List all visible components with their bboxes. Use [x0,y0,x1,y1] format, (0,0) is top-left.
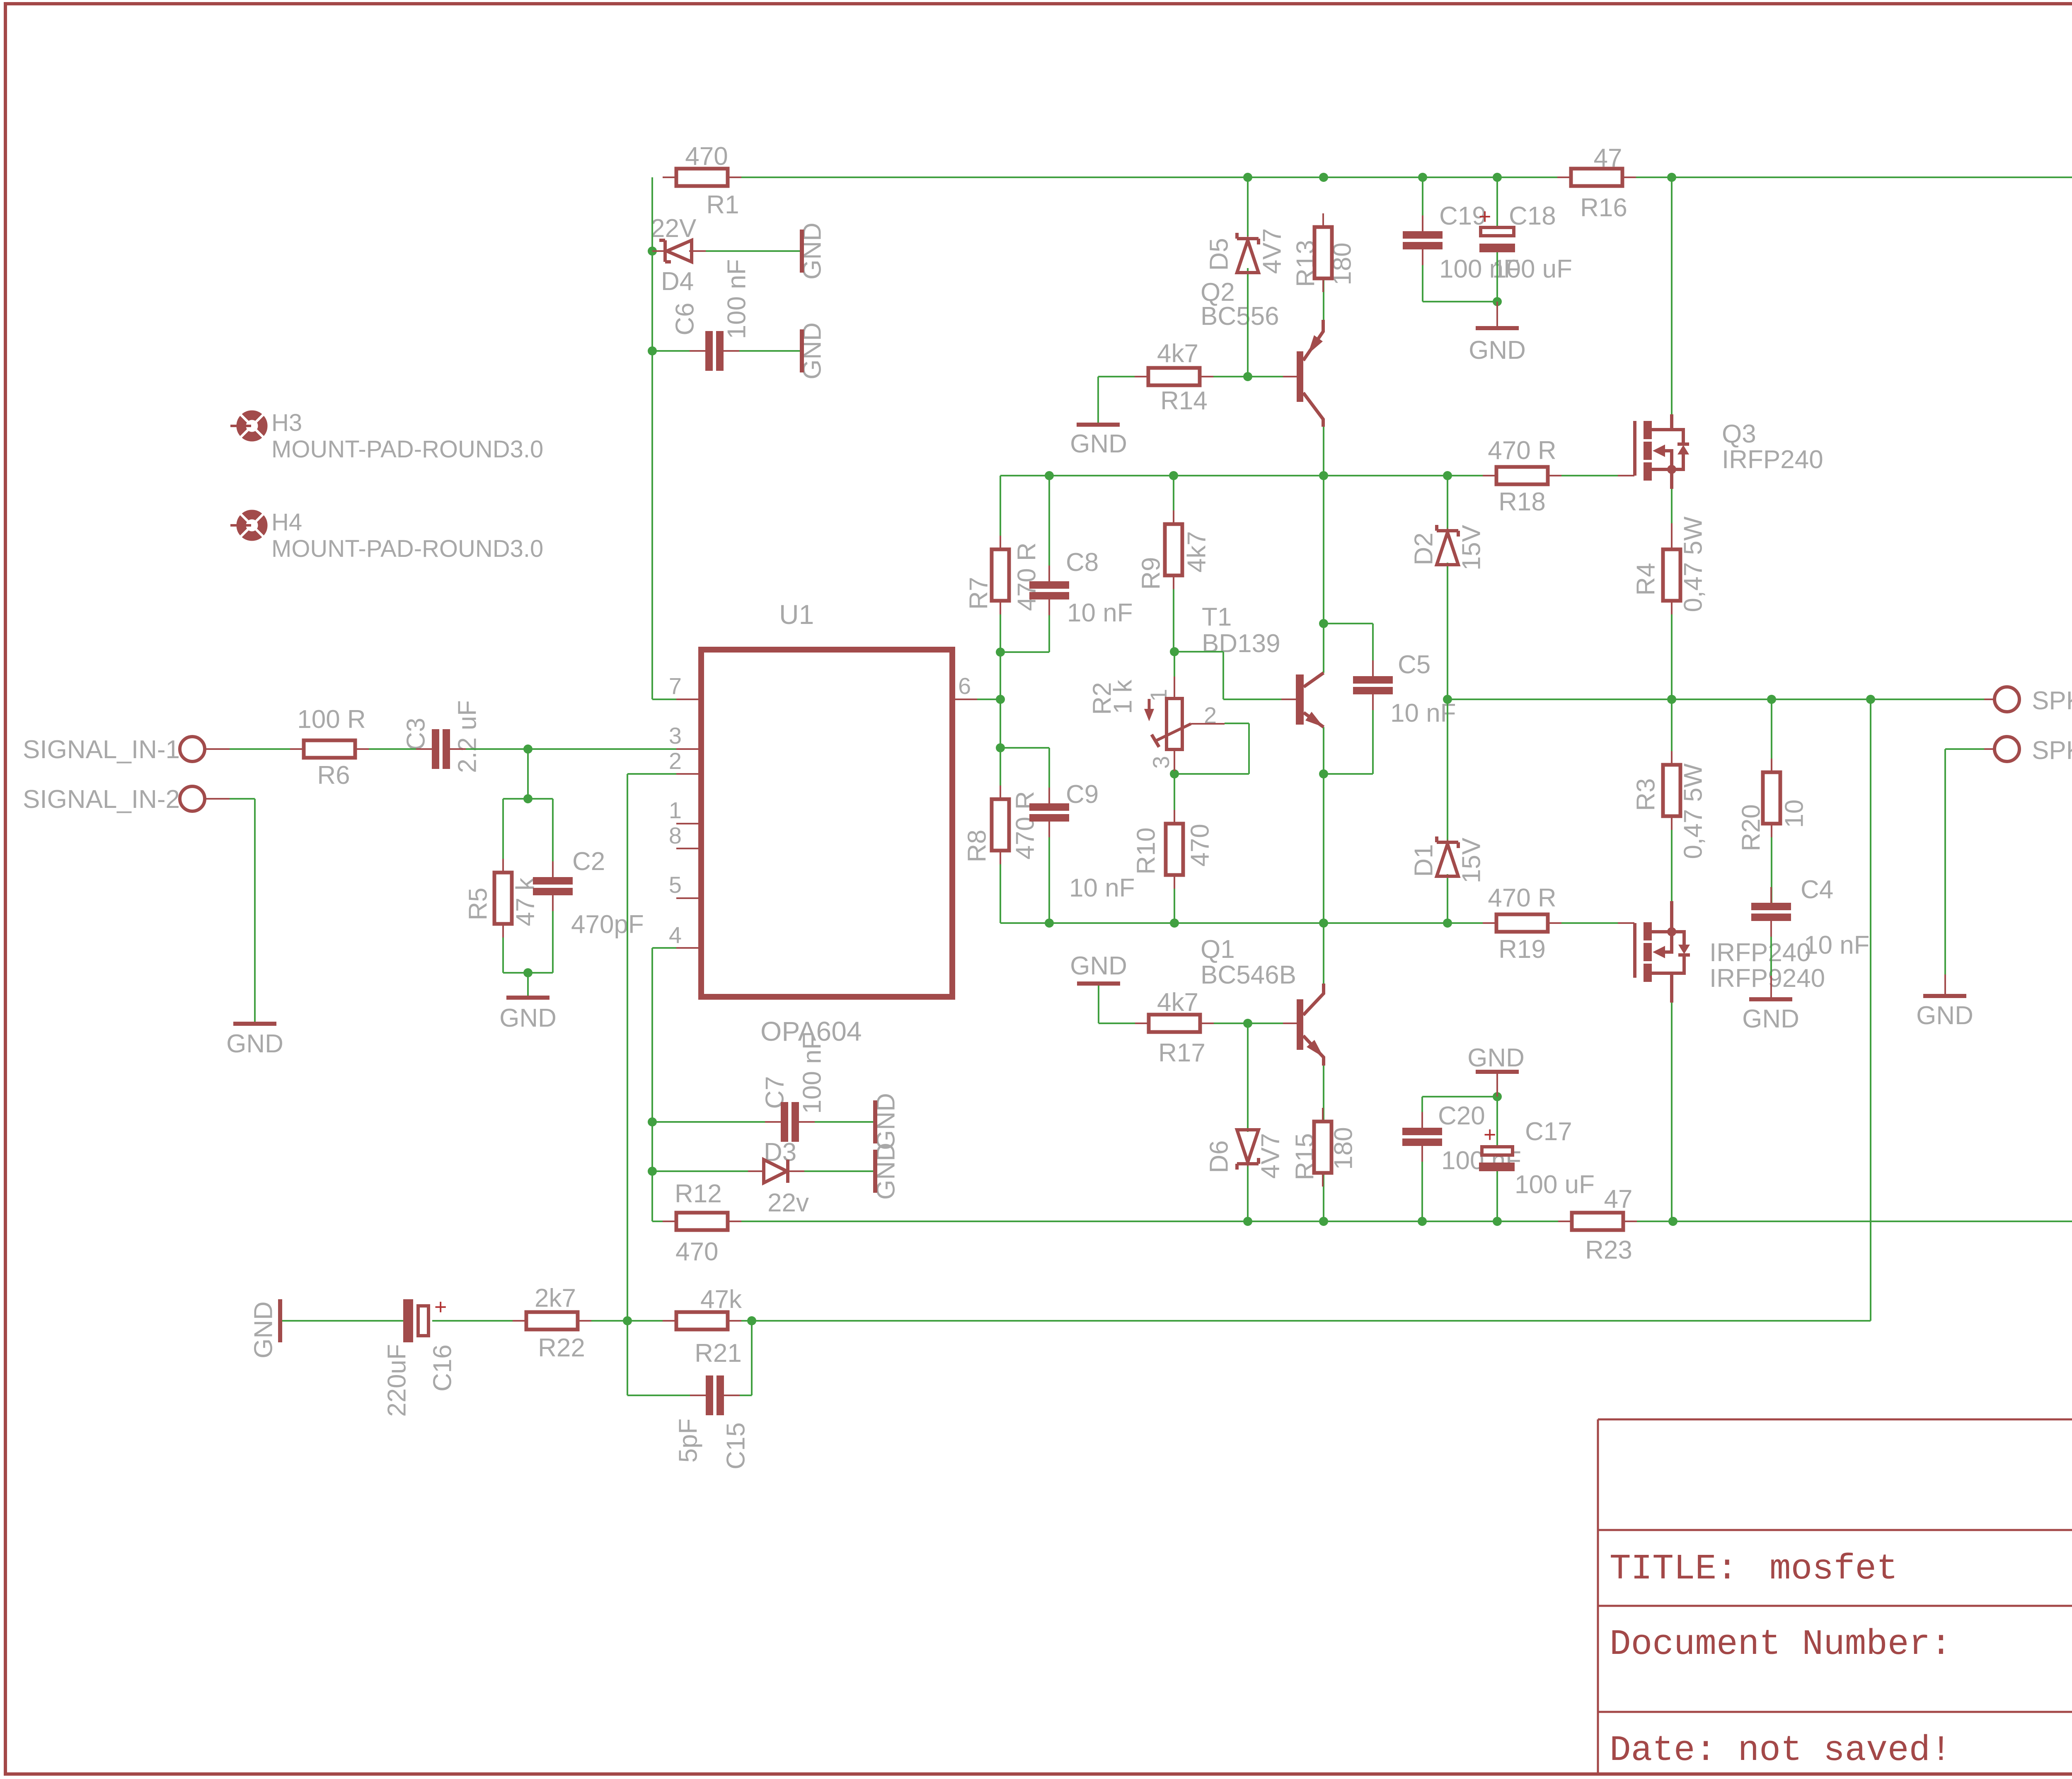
svg-text:Q1: Q1 [1201,935,1235,964]
svg-text:4V7: 4V7 [1258,228,1286,274]
wire R4 leads [1671,489,1673,523]
wire D3 net [652,1170,764,1172]
junction dots [1243,173,1252,182]
svg-text:H3: H3 [271,409,302,436]
svg-text:4k7: 4k7 [1182,531,1211,573]
pad SPK_OUT-1 [1995,737,2019,761]
transistor Q2 BC556 PNP [1297,351,1303,402]
svg-text:22V: 22V [651,214,697,243]
svg-text:C16: C16 [428,1344,457,1392]
svg-text:100 nF: 100 nF [798,1034,826,1114]
svg-text:R5: R5 [464,887,492,920]
wire -IN feedback vertical [627,773,676,775]
gnd below SPK_OUT-1 [1944,974,1946,996]
svg-text:+: + [1479,205,1491,229]
svg-text:47k: 47k [700,1285,742,1314]
polarized capacitor C17 100uF [1482,1147,1513,1155]
diode D3 22v [748,1170,765,1172]
svg-text:470 R: 470 R [1012,542,1041,611]
svg-text:4k7: 4k7 [1157,339,1198,368]
resistor R17 4k7 [1135,1022,1149,1024]
svg-text:R17: R17 [1158,1039,1205,1067]
wire lower bias rail [1000,922,1497,924]
svg-text:R10: R10 [1132,827,1160,875]
svg-text:Date: not saved!: Date: not saved! [1610,1730,1952,1771]
svg-text:C4: C4 [1801,875,1833,904]
gnd for R14 [1077,423,1120,427]
svg-text:GND: GND [226,1030,283,1058]
svg-text:D6: D6 [1205,1140,1233,1173]
svg-text:R16: R16 [1580,193,1627,222]
svg-text:C2: C2 [572,847,605,876]
gnd below C4 [1770,976,1772,999]
svg-text:C8: C8 [1066,548,1099,577]
svg-text:2: 2 [669,748,682,774]
svg-text:100 uF: 100 uF [1492,255,1572,283]
capacitor C8 10nF [1048,566,1050,581]
wire rail2 [1000,475,1497,476]
wire top supply rail [728,176,1571,178]
svg-text:6: 6 [958,673,971,699]
svg-text:R14: R14 [1160,387,1208,415]
resistor R22 2k7 [513,1320,526,1322]
svg-text:D5: D5 [1205,238,1233,271]
svg-text:470pF: 470pF [571,910,644,939]
capacitor C3 2.2uF [416,748,432,750]
svg-text:5: 5 [669,872,682,898]
svg-text:22v: 22v [767,1189,809,1217]
resistor R4 0.47 5W [1671,536,1673,549]
svg-text:10 nF: 10 nF [1067,599,1133,627]
svg-text:GND: GND [499,1004,557,1032]
wire R5/C2 branch [527,749,529,799]
resistor R20 10 [1771,759,1772,772]
wire C7 net [652,1121,780,1123]
wire R20 C4 chain [1771,699,1772,773]
capacitor C4 10nF [1770,887,1772,903]
resistor R8 470R [1000,786,1001,799]
svg-text:BC556: BC556 [1201,302,1279,331]
svg-text:TITLE:: TITLE: [1610,1549,1738,1589]
svg-text:470 R: 470 R [1011,791,1039,859]
svg-text:BD139: BD139 [1202,629,1280,658]
mosfet Q3 IRFP240 [1618,475,1634,476]
zener diode D2 15V [1437,525,1458,537]
opamp U1 OPA604 [701,650,952,997]
wire Q2 emitter/collector [1323,278,1324,320]
svg-text:C3: C3 [402,718,430,750]
svg-text:C6: C6 [670,302,699,335]
svg-text:GND: GND [1070,952,1127,980]
svg-text:Document Number:: Document Number: [1610,1624,1952,1665]
capacitor C6 100nF [690,350,705,352]
svg-text:R7: R7 [964,577,993,609]
svg-text:220uF: 220uF [382,1344,411,1417]
svg-text:H4: H4 [271,509,302,536]
wire D1 leads [1447,699,1448,842]
svg-text:mosfet: mosfet [1769,1549,1898,1589]
resistor R21 47k [663,1320,676,1322]
zener diode D6 4V7 [1237,1158,1259,1170]
resistor R9 4k7 [1173,510,1174,524]
zener diode D4 22V [652,250,669,252]
svg-text:R9: R9 [1137,557,1165,590]
svg-text:2k7: 2k7 [535,1284,576,1312]
svg-text:3: 3 [669,723,682,749]
transistor T1 BD139 NPN [1296,674,1304,725]
wire Q4 drain to rail [1671,1003,1673,1221]
gnd for C6 [800,329,804,372]
gnd below C19 C18 [1496,302,1498,328]
wire R7 R8 spine [1000,476,1001,549]
svg-text:GND: GND [1469,336,1526,365]
resistor R3 0.47 5W [1671,751,1673,765]
capacitor C5 10nF [1372,660,1374,676]
gnd left of C16 (rotated) [278,1299,282,1342]
wire SPK_OUT-2 feedback [1870,699,1871,1321]
wire D6 leads [1247,1023,1249,1132]
gnd below R5 C2 [506,996,549,1000]
resistor R6 100R [290,748,304,750]
wire C19 C18 [1422,177,1423,232]
svg-text:4k7: 4k7 [1157,988,1198,1017]
svg-text:D4: D4 [661,267,694,296]
capacitor C19 100nF [1422,215,1423,231]
wire D4 net [652,250,663,252]
svg-text:15V: 15V [1457,837,1486,883]
pad SIGNAL_IN-1 [180,737,205,761]
polarized capacitor C16 220uF [403,1299,413,1342]
svg-text:15V: 15V [1457,525,1486,570]
svg-text:R22: R22 [538,1334,585,1362]
svg-text:R12: R12 [675,1180,722,1208]
svg-text:3: 3 [1148,756,1174,769]
pad SIGNAL_IN-2 [180,786,205,811]
resistor R7 470R [1000,536,1001,549]
wire R10 leads [1174,774,1175,824]
svg-text:10 nF: 10 nF [1804,931,1870,960]
wire -VS vertical [652,947,676,949]
potentiometer R2 1k [1174,677,1175,699]
svg-text:10: 10 [1780,800,1808,828]
svg-text:D1: D1 [1409,844,1438,877]
wire C6 net [652,350,696,352]
resistor R15 180 [1322,1108,1324,1122]
resistor R10 470 [1174,810,1175,824]
gnd for C7 (rotated) [873,1100,877,1143]
svg-text:8: 8 [669,822,682,848]
svg-text:100 uF: 100 uF [1515,1170,1595,1199]
resistor R14 4k7 [1135,376,1148,377]
gnd for R17 [1077,981,1120,986]
svg-text:SPK_OUT-2: SPK_OUT-2 [2032,686,2072,715]
svg-text:GND: GND [1467,1044,1525,1072]
svg-text:100 R: 100 R [297,705,366,734]
svg-text:MOUNT-PAD-ROUND3.0: MOUNT-PAD-ROUND3.0 [271,535,543,562]
polarized capacitor C18 100uF [1481,227,1514,236]
mount pad H4 [230,514,263,537]
gnd for D3 (rotated) [873,1150,877,1193]
capacitor C20 100nF [1421,1112,1423,1128]
capacitor C7 100nF [765,1121,781,1123]
svg-text:100 nF: 100 nF [722,259,751,339]
svg-text:SIGNAL_IN-2: SIGNAL_IN-2 [23,785,180,814]
wire D5 leads [1247,177,1249,237]
resistor R12 470 [663,1221,676,1222]
svg-text:470 R: 470 R [1488,436,1556,465]
svg-text:R1: R1 [706,191,739,219]
resistor R13 180 [1322,213,1324,227]
mount pad H3 [230,415,263,437]
gnd for D4 [800,230,804,273]
svg-text:IRFP240: IRFP240 [1709,938,1811,967]
svg-text:10 nF: 10 nF [1069,874,1135,902]
resistor R16 47 [1557,176,1571,178]
svg-text:R23: R23 [1585,1236,1632,1264]
svg-text:5pF: 5pF [674,1419,702,1463]
zener diode D5 4V7 [1237,233,1259,244]
svg-text:47: 47 [1604,1185,1633,1213]
capacitor C15 5pF [690,1395,706,1396]
wire signal input [205,748,304,750]
wire R17 net [1098,985,1099,1023]
svg-text:R19: R19 [1498,935,1546,964]
svg-text:GND: GND [249,1301,278,1358]
svg-text:4: 4 [669,922,682,948]
wire D2 leads [1447,476,1448,531]
svg-text:C17: C17 [1525,1117,1572,1146]
svg-text:47 k: 47 k [511,877,540,926]
svg-text:SPK_OUT-1: SPK_OUT-1 [2032,736,2072,765]
svg-text:U1: U1 [779,599,814,630]
svg-text:C20: C20 [1438,1102,1485,1130]
svg-text:180: 180 [1329,1127,1358,1170]
wire R3 leads [1671,699,1673,764]
svg-text:R6: R6 [317,761,350,790]
svg-text:SIGNAL_IN-1: SIGNAL_IN-1 [23,735,180,764]
svg-text:C9: C9 [1066,780,1099,809]
title block [1598,1419,2072,1772]
svg-text:4V7: 4V7 [1256,1133,1285,1179]
wire bottom feedback line [282,1320,404,1322]
wire R2 wiper loop [1225,723,1249,724]
svg-text:0,47 5W: 0,47 5W [1679,516,1707,612]
svg-text:R3: R3 [1631,778,1660,811]
svg-text:T1: T1 [1202,603,1232,631]
svg-text:MOUNT-PAD-ROUND3.0: MOUNT-PAD-ROUND3.0 [271,436,543,463]
zener diode D1 15V [1437,836,1458,848]
svg-text:1: 1 [669,797,682,823]
svg-text:1 k: 1 k [1109,679,1137,714]
wire C9 net [1000,747,1049,749]
wire C15 loop [627,1321,628,1395]
svg-text:470: 470 [685,142,728,171]
svg-text:470: 470 [675,1238,718,1266]
resistor R5 47k [502,859,504,873]
svg-text:R8: R8 [963,829,991,862]
wire C20 C17 [1421,1097,1423,1128]
wire C8 net [1048,476,1050,581]
wire negative rail R12-F2 [652,1221,676,1222]
wire OUT stub [977,699,1000,700]
svg-text:470 R: 470 R [1488,884,1556,912]
svg-text:Q3: Q3 [1722,420,1756,448]
svg-text:+: + [1484,1123,1496,1147]
pad SPK_OUT-2 [1995,687,2019,712]
svg-text:D2: D2 [1409,532,1438,565]
resistor R23 47 [1558,1221,1572,1222]
resistor R19 470R [1483,922,1496,924]
svg-text:+: + [434,1295,447,1319]
wire R2 chain [1174,652,1175,699]
wire C5 loops [1324,623,1373,624]
svg-text:C5: C5 [1398,650,1431,679]
transistor Q1 BC546B NPN [1297,999,1303,1050]
svg-text:R21: R21 [695,1339,742,1368]
capacitor C2 470pF [552,861,554,877]
svg-text:GND: GND [1070,430,1127,458]
wire center spine [1323,476,1324,673]
svg-text:C18: C18 [1509,202,1556,230]
wire signal_in-2 to gnd [205,798,255,800]
svg-text:470: 470 [1186,824,1214,866]
svg-text:BC546B: BC546B [1201,961,1296,989]
wire +VS vertical [651,177,653,699]
resistor R18 470R [1483,475,1496,476]
wire T1 base feed [1174,651,1223,653]
resistor R1 470 [663,176,676,178]
svg-text:GND: GND [1916,1001,1973,1030]
wire SPK_OUT-1 gnd [1945,748,1995,750]
svg-text:R18: R18 [1498,488,1546,516]
wire R9 leads [1173,476,1174,524]
gnd below SIGNAL_IN-2 [233,1022,276,1026]
svg-text:2.2 uF: 2.2 uF [453,700,482,773]
svg-text:IRFP240: IRFP240 [1722,445,1823,474]
gnd above C20 C17 [1496,1073,1498,1097]
wire output rail [1447,699,1995,700]
wire Q3 drain [1671,177,1673,414]
svg-text:C15: C15 [721,1422,750,1470]
svg-text:0,47 5W: 0,47 5W [1679,763,1707,859]
svg-text:IRFP9240: IRFP9240 [1709,964,1825,993]
capacitor C9 10nF [1048,788,1050,803]
svg-text:GND: GND [1742,1005,1799,1033]
mosfet Q4 IRFP9240 [1618,922,1634,924]
svg-text:R4: R4 [1631,563,1660,595]
wire R14 net [1098,376,1148,377]
svg-text:7: 7 [669,673,682,699]
